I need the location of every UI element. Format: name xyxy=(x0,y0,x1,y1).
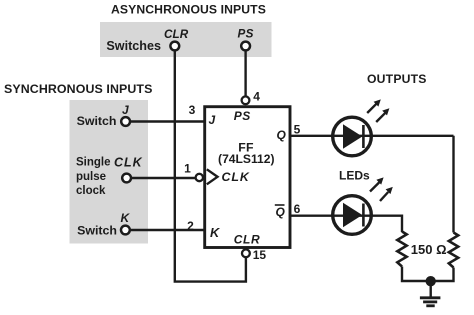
svg-text:CLR: CLR xyxy=(164,28,189,41)
svg-text:CLR: CLR xyxy=(234,233,260,247)
wire: Q (pin 5) through LED1 to right rail xyxy=(290,135,454,137)
svg-text:J: J xyxy=(209,113,216,127)
svg-text:CLK: CLK xyxy=(114,156,143,170)
wire: J switch to pin 3 xyxy=(131,120,206,122)
terminal: J switch xyxy=(121,117,130,126)
svg-text:(74LS112): (74LS112) xyxy=(218,152,274,166)
wire: resistor bottoms to ground junction xyxy=(402,267,454,282)
wire: CLR switch down, along bottom, up to pin 15 bubble xyxy=(175,51,246,282)
junction dot (ground node) xyxy=(426,276,436,286)
svg-text:ASYNCHRONOUS INPUTS: ASYNCHRONOUS INPUTS xyxy=(111,3,266,17)
clock input chevron xyxy=(207,169,218,184)
wire: right rail down to resistor R2 xyxy=(452,136,454,233)
LED D1 (Q output) xyxy=(333,117,372,156)
wire: K switch to pin 2 xyxy=(130,229,205,231)
svg-text:clock: clock xyxy=(76,185,106,197)
svg-text:3: 3 xyxy=(189,103,196,117)
shaded box: asynchronous switch inputs xyxy=(100,22,272,57)
svg-text:Switch: Switch xyxy=(77,114,117,128)
svg-text:J: J xyxy=(122,103,129,117)
svg-text:4: 4 xyxy=(253,90,260,104)
LED D1 light arrows xyxy=(367,99,389,122)
svg-text:Switch: Switch xyxy=(77,224,117,238)
shaded box: synchronous switch inputs xyxy=(70,100,149,244)
svg-text:pulse: pulse xyxy=(76,171,106,183)
svg-text:2: 2 xyxy=(187,219,194,233)
svg-text:SYNCHRONOUS INPUTS: SYNCHRONOUS INPUTS xyxy=(4,82,152,96)
svg-text:PS: PS xyxy=(234,109,251,123)
resistor R1 (left 150 ohm) xyxy=(397,232,406,267)
svg-text:5: 5 xyxy=(294,123,301,137)
svg-text:K: K xyxy=(121,211,131,225)
svg-text:1: 1 xyxy=(184,162,191,176)
wire: PS switch down to pin 4 bubble xyxy=(244,51,246,96)
svg-text:Single: Single xyxy=(76,157,111,169)
svg-text:PS: PS xyxy=(238,28,254,41)
terminal: PS switch xyxy=(241,42,250,51)
svg-text:6: 6 xyxy=(294,202,301,216)
svg-text:OUTPUTS: OUTPUTS xyxy=(367,72,427,86)
terminal: CLR switch xyxy=(170,42,179,51)
svg-text:LEDs: LEDs xyxy=(339,169,370,183)
LED D2 light arrows xyxy=(370,177,393,201)
wire: clock to pin 1 bubble xyxy=(132,177,196,179)
pin 4 bubble (preset, active low) xyxy=(242,96,250,104)
svg-text:CLK: CLK xyxy=(222,170,250,184)
pin 15 bubble (clear, active low) xyxy=(242,249,250,257)
ground xyxy=(420,281,441,306)
terminal: clock pulse source xyxy=(122,174,131,183)
pin 1 bubble (clock, negative edge) xyxy=(196,174,203,181)
svg-text:Q: Q xyxy=(276,205,286,219)
resistor R2 (right 150 ohm) xyxy=(449,233,458,268)
flip-flop U1 74LS112 body xyxy=(205,107,290,248)
overline of Q-bar xyxy=(275,204,285,206)
terminal: K switch xyxy=(121,226,130,235)
wire: Q-bar (pin 6) through LED2 to resistor R1 xyxy=(290,216,402,232)
LED D2 (Q-bar output) xyxy=(333,196,372,235)
svg-text:Q: Q xyxy=(277,128,287,142)
svg-text:15: 15 xyxy=(253,248,267,262)
svg-text:150 Ω: 150 Ω xyxy=(411,242,447,257)
svg-text:Switches: Switches xyxy=(106,39,161,53)
